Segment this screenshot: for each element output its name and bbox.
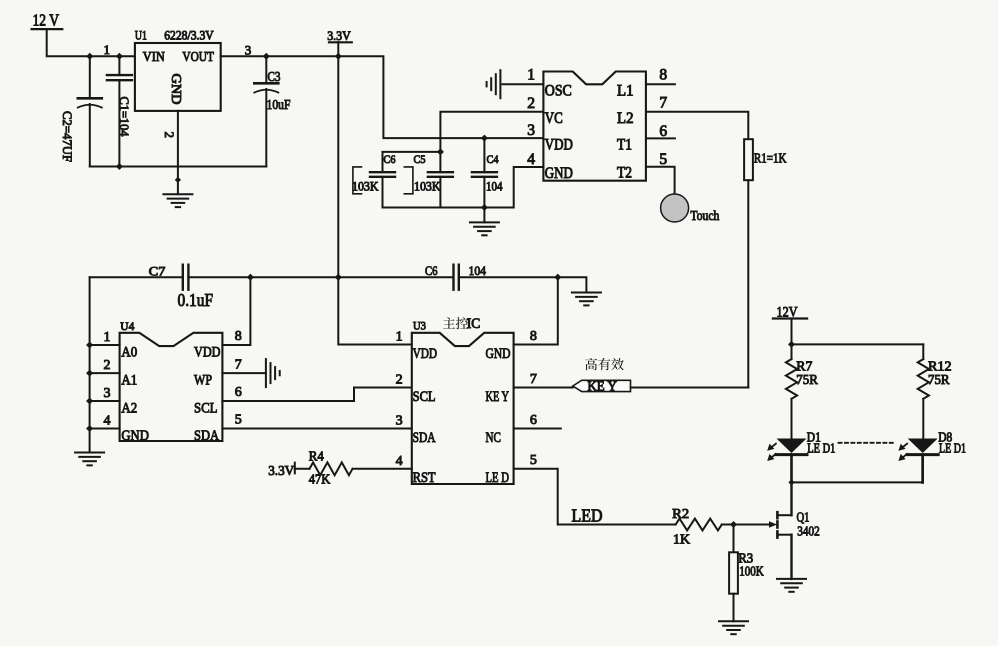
svg-text:1: 1 — [104, 42, 111, 57]
svg-text:Touch: Touch — [690, 209, 719, 224]
svg-text:6228/3.3V: 6228/3.3V — [164, 28, 214, 42]
svg-text:VOUT: VOUT — [182, 49, 214, 64]
svg-text:104: 104 — [486, 180, 503, 194]
svg-text:T1: T1 — [617, 137, 632, 154]
svg-text:8: 8 — [530, 329, 537, 344]
svg-text:C7: C7 — [149, 264, 166, 278]
svg-text:2: 2 — [162, 132, 177, 139]
svg-text:12 V: 12 V — [33, 11, 60, 30]
svg-text:1: 1 — [104, 330, 111, 345]
svg-text:C6: C6 — [425, 264, 438, 278]
svg-text:C5: C5 — [414, 154, 426, 166]
svg-text:4: 4 — [396, 454, 403, 469]
svg-text:SCL: SCL — [413, 389, 436, 405]
svg-text:A1: A1 — [121, 373, 137, 389]
svg-text:7: 7 — [235, 357, 242, 372]
svg-text:2: 2 — [396, 373, 403, 388]
svg-text:VC: VC — [545, 110, 563, 127]
svg-text:KE Y: KE Y — [486, 389, 510, 405]
svg-text:75R: 75R — [796, 372, 818, 387]
svg-text:0.1uF: 0.1uF — [178, 290, 214, 310]
svg-text:U1: U1 — [135, 28, 147, 42]
svg-text:C3: C3 — [268, 69, 281, 84]
svg-text:LE D1: LE D1 — [939, 441, 966, 456]
svg-text:100K: 100K — [739, 563, 764, 578]
svg-text:R2: R2 — [672, 507, 689, 522]
svg-text:2: 2 — [527, 95, 535, 112]
svg-text:SCL: SCL — [194, 401, 218, 417]
svg-text:GND: GND — [169, 74, 184, 105]
svg-text:SDA: SDA — [413, 430, 436, 446]
svg-text:6: 6 — [530, 413, 537, 428]
svg-text:VDD: VDD — [194, 345, 221, 361]
svg-text:5: 5 — [659, 151, 667, 168]
svg-text:1: 1 — [527, 66, 535, 83]
svg-text:10uF: 10uF — [267, 98, 291, 113]
svg-text:L1: L1 — [617, 82, 634, 99]
svg-text:6: 6 — [659, 123, 667, 140]
svg-text:C1=104: C1=104 — [117, 97, 132, 137]
svg-text:2: 2 — [104, 358, 111, 373]
svg-text:RST: RST — [413, 470, 436, 486]
svg-text:47K: 47K — [309, 472, 331, 487]
svg-text:LED: LED — [572, 505, 603, 525]
svg-text:T2: T2 — [617, 164, 632, 181]
svg-text:3402: 3402 — [797, 523, 820, 538]
svg-text:4: 4 — [527, 151, 535, 168]
svg-text:1: 1 — [396, 330, 403, 345]
svg-text:GND: GND — [121, 428, 149, 444]
svg-text:VDD: VDD — [413, 346, 438, 362]
svg-text:104: 104 — [469, 264, 487, 278]
svg-text:5: 5 — [530, 453, 537, 468]
svg-text:GND: GND — [486, 346, 511, 362]
svg-text:3: 3 — [104, 386, 111, 401]
svg-text:3: 3 — [527, 122, 535, 139]
svg-text:3: 3 — [396, 414, 403, 429]
svg-text:8: 8 — [659, 67, 667, 84]
svg-text:7: 7 — [659, 95, 667, 112]
svg-text:GND: GND — [545, 165, 573, 182]
svg-text:R1=1K: R1=1K — [754, 151, 787, 166]
svg-text:C2=47UF: C2=47UF — [60, 111, 75, 162]
svg-text:U4: U4 — [120, 321, 134, 333]
svg-text:6: 6 — [235, 385, 242, 400]
svg-text:L2: L2 — [617, 110, 634, 127]
svg-text:A2: A2 — [121, 401, 137, 417]
svg-text:103K: 103K — [352, 180, 379, 194]
svg-text:VIN: VIN — [143, 49, 165, 64]
svg-text:NC: NC — [486, 430, 502, 446]
svg-text:LE D: LE D — [486, 470, 510, 486]
svg-text:KE Y: KE Y — [587, 378, 617, 393]
svg-text:IC: IC — [467, 316, 481, 332]
svg-text:WP: WP — [194, 373, 212, 389]
svg-text:OSC: OSC — [545, 82, 572, 99]
svg-text:103K: 103K — [414, 180, 441, 194]
svg-text:SDA: SDA — [194, 428, 219, 444]
svg-text:LE D1: LE D1 — [807, 441, 835, 456]
svg-text:1K: 1K — [673, 532, 690, 547]
svg-text:R4: R4 — [309, 448, 324, 463]
svg-text:3.3V: 3.3V — [268, 464, 294, 479]
svg-text:C4: C4 — [487, 154, 499, 166]
svg-text:75R: 75R — [928, 372, 950, 387]
svg-text:7: 7 — [530, 372, 537, 387]
svg-text:3.3V: 3.3V — [327, 28, 351, 43]
svg-text:A0: A0 — [121, 345, 137, 361]
svg-text:VDD: VDD — [545, 137, 573, 154]
svg-text:8: 8 — [235, 329, 242, 344]
svg-text:C6: C6 — [384, 154, 396, 166]
svg-text:4: 4 — [104, 413, 111, 428]
svg-text:5: 5 — [235, 413, 242, 428]
svg-text:U3: U3 — [413, 319, 426, 333]
